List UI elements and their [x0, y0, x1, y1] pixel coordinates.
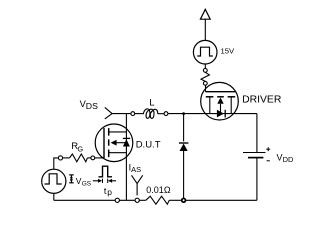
- diode (clamp): [179, 143, 188, 151]
- resistor (driver gate, unlabeled): [201, 72, 209, 81]
- label tp: [104, 186, 112, 197]
- wire: [119, 199, 135, 201]
- wire top rail left: [112, 113, 131, 115]
- wire 15V gen to terminal: [204, 64, 206, 69]
- svg-text:L: L: [149, 97, 154, 108]
- wire: [169, 199, 181, 201]
- terminal node: [203, 81, 207, 85]
- pulse generator VGS: [42, 169, 66, 193]
- pulse generator 15V: [193, 40, 217, 64]
- wire to VGS generator: [54, 158, 59, 169]
- svg-text:0.01Ω: 0.01Ω: [146, 185, 171, 195]
- svg-text:AS: AS: [131, 165, 141, 174]
- label RG: [71, 141, 83, 154]
- node (diode anode junction): [182, 198, 186, 202]
- tp pulse annotation: [93, 166, 116, 183]
- label VGS: [76, 176, 92, 188]
- wire: [87, 157, 91, 159]
- supply arrow (open triangle up): [200, 9, 210, 19]
- node (shunt left terminal): [135, 198, 139, 202]
- inductor L: [143, 109, 157, 119]
- wire bottom rail right: [186, 199, 257, 201]
- svg-text:p: p: [107, 187, 112, 197]
- wire: [139, 199, 146, 201]
- svg-text:DRIVER: DRIVER: [242, 94, 282, 105]
- mosfet U-DRIVER (circle body): [201, 82, 239, 120]
- wire gate lead: [95, 157, 104, 159]
- svg-text:GS: GS: [82, 180, 92, 187]
- wire arrow to 15V generator: [204, 19, 206, 40]
- svg-text:G: G: [78, 144, 84, 153]
- mosfet D.U.T (circle body): [95, 124, 133, 162]
- node (RG left terminal): [58, 156, 62, 160]
- wire battery bottom: [256, 158, 258, 201]
- node (source return terminal): [115, 198, 119, 202]
- wire: [63, 157, 70, 159]
- junction dot (diode tap): [182, 112, 185, 115]
- VDS probe arrow: [105, 107, 112, 119]
- svg-text:15V: 15V: [221, 47, 235, 56]
- terminal node: [203, 69, 207, 73]
- svg-text:D.U.T: D.U.T: [136, 139, 161, 150]
- node (gate terminal): [91, 156, 95, 160]
- IAS current arrow: [132, 175, 143, 195]
- svg-text:DD: DD: [283, 155, 294, 164]
- label VDS: [80, 99, 98, 111]
- mosfet DRIVER internals: [206, 85, 236, 117]
- wire: [158, 113, 165, 115]
- label VDD: [277, 152, 295, 164]
- node (inductor left terminal): [131, 112, 135, 116]
- wire bottom rail: [54, 199, 115, 201]
- wire VGS gen to bottom rail: [53, 193, 55, 200]
- resistor shunt 0.01 ohm: [146, 196, 170, 204]
- label IAS: [129, 163, 142, 174]
- VGS measure arrow: [69, 175, 74, 183]
- wire DUT drain: [125, 114, 127, 201]
- wire battery top: [256, 114, 258, 152]
- battery VDD: [243, 147, 270, 161]
- mosfet D.U.T internals: [104, 128, 130, 158]
- svg-text:DS: DS: [86, 101, 98, 111]
- wire diode cathode: [183, 114, 185, 142]
- resistor RG zigzag: [70, 154, 88, 162]
- node (inductor right terminal): [164, 112, 168, 116]
- wire diode anode: [183, 151, 185, 199]
- wire top rail right: [168, 113, 257, 115]
- wire: [135, 113, 144, 115]
